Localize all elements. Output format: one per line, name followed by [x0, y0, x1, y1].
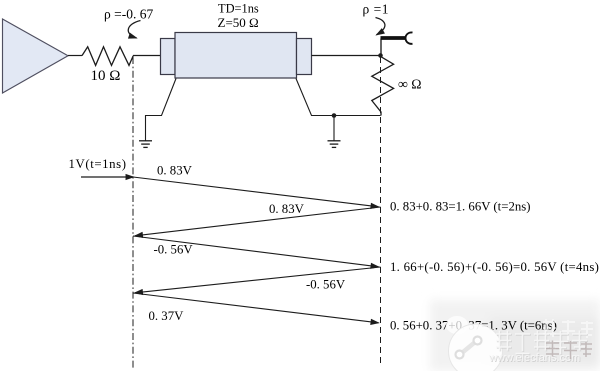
svg-text:0. 37V: 0. 37V: [149, 309, 185, 323]
watermark backdrop light: [430, 300, 600, 371]
wire bounce 1 (0.83V forward): [133, 177, 379, 207]
resistor R2 infinite (vertical): [372, 57, 394, 116]
open connector arc: [406, 32, 413, 43]
wire T1 to load node: [312, 55, 381, 57]
watermark ghost glyphs over t=6ns: [543, 319, 593, 340]
wire bounce 5 (0.37V forward): [133, 293, 379, 323]
svg-text:ρ =-0. 67: ρ =-0. 67: [104, 6, 153, 21]
wire bounce 4 (-0.56V reflected): [135, 267, 381, 293]
watermark blob over 37: [446, 316, 468, 334]
svg-text:Z=50 Ω: Z=50 Ω: [218, 15, 259, 30]
arrow rho source: [128, 21, 140, 39]
ground right: [328, 141, 341, 148]
transmission line T1 right cap: [297, 39, 312, 75]
svg-text:0. 83+0. 83=1. 66V (t=2ns): 0. 83+0. 83=1. 66V (t=2ns): [390, 199, 531, 213]
watermark logo circle: [449, 324, 503, 371]
svg-text:-0. 56V: -0. 56V: [306, 278, 346, 292]
wire bounce 3 (-0.56V forward): [133, 236, 379, 267]
ground left: [139, 141, 152, 148]
svg-text:www.elecfans.com: www.elecfans.com: [488, 352, 580, 364]
junction dot right shield: [332, 113, 337, 118]
transmission line T1 body: [175, 33, 297, 79]
watermark text CJK row white: [496, 331, 587, 355]
svg-text:1V(t=1ns): 1V(t=1ns): [69, 157, 127, 171]
node B dot (load): [378, 53, 383, 58]
driver U1 (output buffer triangle): [3, 19, 69, 93]
wire node to open stub: [380, 39, 382, 56]
node A dashed vertical (source end): [132, 57, 134, 369]
watermark seal glyphs: [546, 341, 592, 360]
svg-text:0. 83V: 0. 83V: [269, 202, 305, 216]
watermark logo pad 1: [456, 351, 464, 359]
wire R1 to transmission line: [133, 55, 161, 57]
svg-text:∞ Ω: ∞ Ω: [398, 77, 422, 92]
wire junction to ground: [333, 116, 335, 141]
wire left shield leg: [146, 79, 177, 141]
wire input arrow: [81, 176, 134, 178]
open connector thick bar: [381, 36, 406, 40]
resistor R1 10 ohm: [82, 47, 133, 66]
transmission line T1 left cap: [161, 39, 176, 75]
wire bounce 2 (0.83V reflected): [135, 207, 381, 236]
watermark text CJK row shadow: [497, 331, 588, 355]
node B dashed vertical (load end): [380, 57, 382, 366]
svg-text:ρ =1: ρ =1: [363, 2, 389, 17]
svg-text:10 Ω: 10 Ω: [91, 68, 121, 84]
svg-text:1. 66+(-0. 56)+(-0. 56)=0. 56V: 1. 66+(-0. 56)+(-0. 56)=0. 56V (t=4ns): [390, 260, 599, 274]
watermark logo pad 2: [474, 337, 482, 345]
wire driver to R1: [68, 55, 82, 57]
watermark logo trace: [460, 341, 477, 355]
wire right shield leg: [296, 79, 381, 116]
svg-text:0. 83V: 0. 83V: [157, 163, 193, 177]
svg-text:TD=1ns: TD=1ns: [218, 1, 259, 15]
arrow rho load: [376, 18, 385, 35]
svg-text:-0. 56V: -0. 56V: [154, 243, 194, 257]
